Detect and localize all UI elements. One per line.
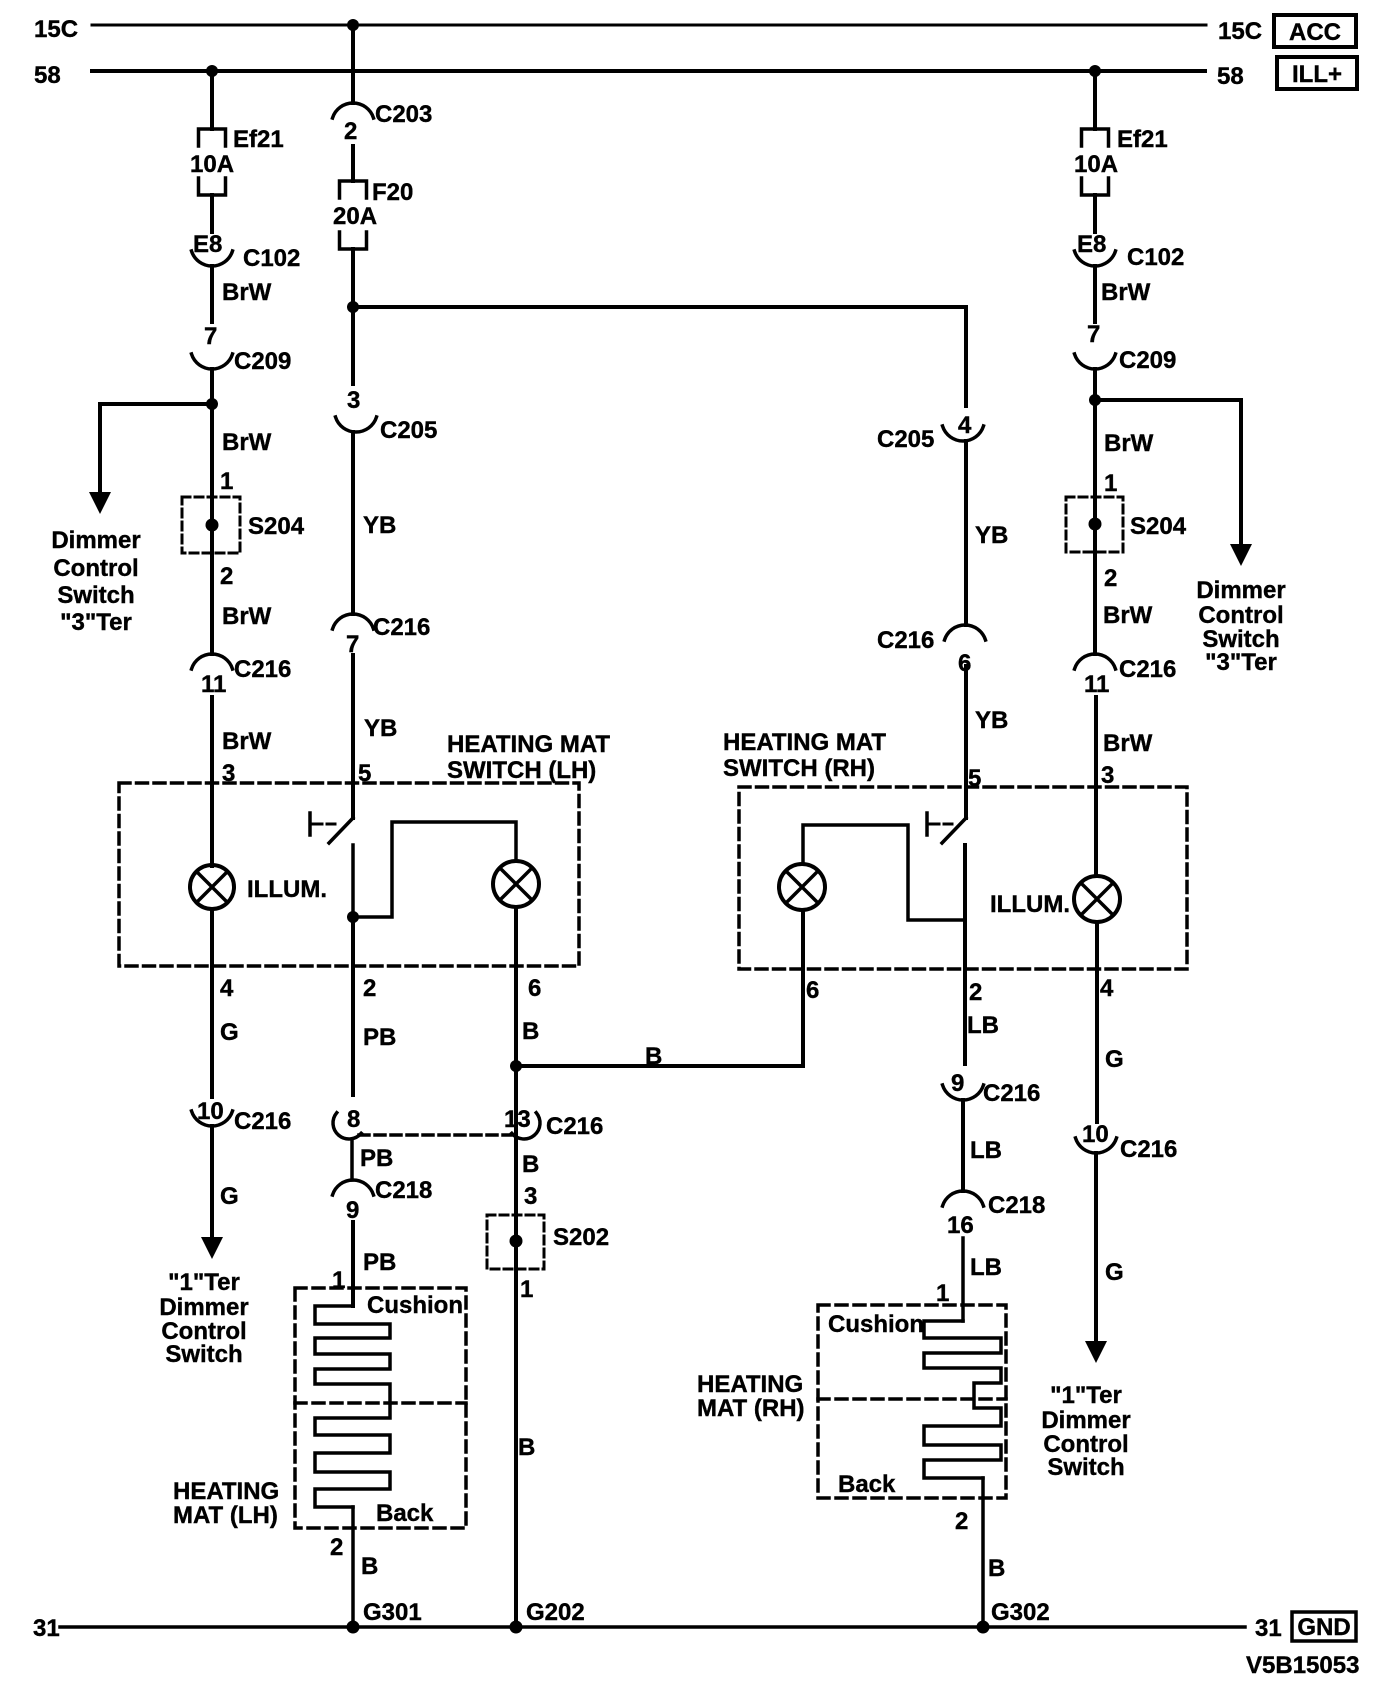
wire C216-6 to switch contact (RH) [964, 666, 968, 818]
svg-text:7: 7 [346, 631, 359, 658]
svg-text:11: 11 [201, 671, 226, 698]
svg-text:Dimmer: Dimmer [159, 1294, 248, 1321]
switch T-bar symbol (LH) [308, 813, 312, 835]
svg-text:31: 31 [33, 1615, 60, 1642]
heating mat LH cushion/back divider [295, 1401, 466, 1405]
svg-text:10: 10 [197, 1098, 224, 1125]
arrowhead right dimmer [1230, 544, 1252, 566]
ground dot G202 [510, 1621, 523, 1634]
svg-text:4: 4 [1100, 975, 1114, 1002]
svg-text:Control: Control [1198, 602, 1283, 629]
svg-text:2: 2 [220, 563, 233, 590]
svg-text:BrW: BrW [1104, 430, 1154, 457]
svg-text:2: 2 [344, 118, 357, 145]
svg-text:G: G [220, 1019, 239, 1046]
wire S204 through to C216 (right) [1093, 497, 1097, 552]
svg-text:LB: LB [967, 1012, 999, 1039]
svg-text:C203: C203 [375, 101, 432, 128]
svg-text:15C: 15C [34, 16, 78, 43]
node branch to dimmer arrow (right) [1089, 394, 1101, 406]
wire lamp branch riser (LH) [353, 822, 516, 917]
tag box ACC [1274, 15, 1356, 47]
svg-text:16: 16 [947, 1212, 974, 1239]
svg-text:BrW: BrW [1101, 279, 1151, 306]
svg-text:11: 11 [1084, 671, 1109, 698]
svg-text:C205: C205 [380, 417, 437, 444]
svg-text:Switch: Switch [1047, 1454, 1124, 1481]
svg-text:B: B [522, 1151, 539, 1178]
switch box (LH) dashed [119, 783, 579, 966]
svg-text:YB: YB [364, 715, 397, 742]
svg-text:S204: S204 [248, 513, 305, 540]
svg-text:HEATING: HEATING [173, 1478, 279, 1505]
svg-text:PB: PB [363, 1249, 396, 1276]
wire C205-3 to C216-7 [351, 432, 355, 614]
lamp indicator (RH switch) [779, 864, 825, 910]
svg-text:Cushion: Cushion [828, 1311, 924, 1338]
connector 16 C218 (col5) [943, 1191, 984, 1206]
lamp ILLUM (RH) [1074, 876, 1120, 922]
svg-text:Cushion: Cushion [367, 1292, 463, 1319]
splice S202 dashed box [487, 1215, 544, 1269]
wire arrow to 1Ter dimmer control switch (left) [210, 1126, 214, 1240]
svg-text:13: 13 [504, 1106, 531, 1133]
svg-text:C216: C216 [1119, 656, 1176, 683]
wire C203 to fuse F20 [351, 146, 355, 181]
connector 11 C216 (left) [192, 654, 233, 669]
svg-text:BrW: BrW [222, 429, 272, 456]
node junction 15C/col2 [347, 19, 359, 31]
heating mat LH element zigzag [315, 1306, 390, 1507]
svg-text:LB: LB [970, 1254, 1002, 1281]
dashed link C216 pins 8-13 [359, 1133, 511, 1137]
svg-text:1: 1 [220, 468, 233, 495]
svg-text:B: B [522, 1018, 539, 1045]
tag box GND [1292, 1612, 1356, 1641]
wire C205-4 to C216-6 [964, 441, 968, 625]
wire C216-11 into switch box to lamp (right) [1094, 697, 1098, 876]
wire col5 from feed down to C205-4 [964, 307, 968, 406]
svg-text:PB: PB [360, 1145, 393, 1172]
connector 8 C216 (col2) tilted [326, 1113, 361, 1146]
svg-text:4: 4 [958, 412, 972, 439]
svg-text:ACC: ACC [1289, 19, 1341, 46]
switch box (RH) dashed [739, 787, 1187, 969]
svg-text:Control: Control [53, 555, 138, 582]
splice S204 (right) dot [1089, 518, 1102, 531]
wire lamp branch (RH) [803, 825, 965, 920]
connector 9 C218 (col2) [333, 1180, 374, 1195]
svg-text:8: 8 [347, 1106, 360, 1133]
svg-text:C209: C209 [234, 348, 291, 375]
svg-text:2: 2 [1104, 565, 1117, 592]
wire mat LH pin2 to G301 [351, 1507, 355, 1627]
svg-text:ILL+: ILL+ [1292, 61, 1342, 88]
svg-text:BrW: BrW [222, 728, 272, 755]
svg-text:C216: C216 [373, 614, 430, 641]
svg-text:Switch: Switch [57, 582, 134, 609]
svg-text:58: 58 [34, 62, 61, 89]
svg-text:10: 10 [1082, 1121, 1109, 1148]
svg-text:10A: 10A [1074, 151, 1118, 178]
wire B horizontal to RH lamp [516, 1064, 803, 1068]
bus 15C [92, 24, 1206, 27]
svg-text:Ef21: Ef21 [1117, 126, 1168, 153]
svg-text:BrW: BrW [222, 279, 272, 306]
svg-text:Ef21: Ef21 [233, 126, 284, 153]
svg-text:31: 31 [1255, 1615, 1282, 1642]
svg-text:C205: C205 [877, 426, 934, 453]
svg-text:PB: PB [363, 1024, 396, 1051]
svg-text:Back: Back [376, 1500, 434, 1527]
wire fuse to connector E8 (right) [1093, 195, 1097, 232]
svg-text:BrW: BrW [222, 603, 272, 630]
wire junction down to C205-3 [351, 307, 355, 384]
svg-text:7: 7 [204, 323, 217, 350]
svg-text:E8: E8 [1077, 231, 1106, 258]
svg-text:B: B [518, 1434, 535, 1461]
arrowhead left dimmer [89, 492, 111, 514]
svg-text:Dimmer: Dimmer [1041, 1407, 1130, 1434]
svg-text:MAT (RH): MAT (RH) [697, 1395, 805, 1422]
heating mat RH cushion/back divider [818, 1397, 1006, 1401]
wire C209 to S204 [210, 369, 214, 497]
wire E8 to C209 (right) [1093, 266, 1097, 322]
bus 58 [92, 69, 1205, 73]
connector 7 C209 (left) [192, 354, 233, 369]
connector 6 C216 (col5) [945, 625, 986, 640]
svg-text:YB: YB [975, 522, 1008, 549]
node lamp branch junction (LH) [347, 911, 359, 923]
connector 4 C205 (col5) [943, 426, 984, 441]
svg-text:C218: C218 [988, 1192, 1045, 1219]
svg-text:C216: C216 [877, 627, 934, 654]
connector E8/C102 (right) [1075, 251, 1116, 266]
splice S202 dot [510, 1235, 523, 1248]
svg-text:ILLUM.: ILLUM. [990, 891, 1070, 918]
svg-text:58: 58 [1217, 63, 1244, 90]
svg-text:5: 5 [358, 760, 371, 787]
svg-text:C102: C102 [1127, 244, 1184, 271]
connector 7 C209 (right) [1075, 354, 1116, 369]
wire horizontal feed to RH side [353, 305, 966, 309]
svg-text:4: 4 [220, 975, 234, 1002]
svg-text:V5B15053: V5B15053 [1246, 1652, 1359, 1679]
wire below blade to junction (LH) [351, 845, 355, 917]
svg-text:G302: G302 [991, 1599, 1050, 1626]
switch blade (RH heating mat switch) [942, 818, 966, 843]
splice S204 (left) dashed box [182, 497, 240, 553]
ground dot G301 [347, 1621, 360, 1634]
splice S204 (left) dot [206, 519, 219, 532]
svg-text:9: 9 [951, 1070, 964, 1097]
svg-text:C216: C216 [234, 656, 291, 683]
wire S202 through down to G202 [514, 1215, 518, 1269]
svg-text:YB: YB [363, 512, 396, 539]
svg-text:SWITCH (LH): SWITCH (LH) [447, 757, 596, 784]
svg-text:Dimmer: Dimmer [1196, 577, 1285, 604]
heating mat RH dashed box [818, 1305, 1006, 1498]
svg-text:5: 5 [968, 765, 981, 792]
wire C216-9 to C218-16 [961, 1100, 965, 1191]
wire fuse to connector E8 [210, 195, 214, 232]
wire 13 down to S202 [514, 1066, 518, 1215]
wire C216-11 into switch box to lamp [210, 697, 214, 866]
svg-text:10A: 10A [190, 151, 234, 178]
svg-text:2: 2 [955, 1508, 968, 1535]
svg-text:2: 2 [969, 979, 982, 1006]
connector 3 C205 (col2) [336, 417, 377, 432]
svg-text:6: 6 [528, 975, 541, 1002]
svg-text:15C: 15C [1218, 18, 1262, 45]
node junction 58/col6 [1089, 65, 1101, 77]
svg-text:MAT (LH): MAT (LH) [173, 1502, 278, 1529]
svg-text:G202: G202 [526, 1599, 585, 1626]
connector 7 C216 (col2) [333, 614, 374, 629]
wire arrow to 1Ter dimmer control switch (right) [1094, 1153, 1098, 1344]
wire col1 58 to fuse Ef21 [210, 71, 214, 129]
svg-text:ILLUM.: ILLUM. [247, 876, 327, 903]
wire branch to left arrow [100, 404, 212, 498]
svg-text:BrW: BrW [1103, 730, 1153, 757]
svg-text:Switch: Switch [165, 1341, 242, 1368]
svg-text:"3"Ter: "3"Ter [60, 609, 132, 636]
heating mat RH element zigzag [924, 1321, 1001, 1478]
fuse Ef21 (right) 10A [1082, 129, 1109, 146]
wire col2 from 15C down to C203 [351, 25, 355, 103]
wire E8 to C209 [210, 266, 214, 322]
svg-text:3: 3 [1101, 762, 1114, 789]
svg-text:3: 3 [222, 760, 235, 787]
connector 13 C216 (col3) tilted [512, 1113, 547, 1146]
wire 9 to heating mat LH pin1 [351, 1222, 355, 1306]
svg-text:Back: Back [838, 1471, 896, 1498]
connector 9 C216 (col5) [943, 1085, 984, 1100]
node junction 58/col1 [206, 65, 218, 77]
svg-text:6: 6 [958, 650, 971, 677]
wire 16 to heating mat RH pin1 [961, 1238, 965, 1321]
fuse Ef21 (left) 10A [199, 129, 226, 146]
wire col2 pin2 down to C216-8 [351, 917, 355, 1095]
svg-text:C218: C218 [375, 1177, 432, 1204]
svg-text:6: 6 [806, 977, 819, 1004]
switch blade (LH heating mat switch) [329, 818, 353, 843]
svg-text:E8: E8 [193, 231, 222, 258]
svg-text:C216: C216 [234, 1108, 291, 1135]
svg-text:1: 1 [1104, 470, 1117, 497]
lamp ILLUM (LH) [190, 865, 234, 909]
svg-text:B: B [988, 1555, 1005, 1582]
wire S204 through to C216 [210, 497, 214, 553]
svg-text:G: G [1105, 1259, 1124, 1286]
fuse F20 20A [340, 181, 367, 198]
svg-text:"1"Ter: "1"Ter [1050, 1382, 1122, 1409]
svg-text:BrW: BrW [1103, 602, 1153, 629]
wire F20 to junction [351, 249, 355, 307]
svg-text:3: 3 [347, 387, 360, 414]
svg-text:20A: 20A [333, 203, 377, 230]
lamp indicator (LH switch) [493, 861, 539, 907]
connector 2 C203 (col2 top) [333, 103, 374, 118]
wire col6 58 to fuse Ef21 (right) [1093, 71, 1097, 129]
wire ILLUM lamp down to C216-10 (right) [1095, 922, 1099, 1122]
svg-text:SWITCH (RH): SWITCH (RH) [723, 755, 875, 782]
svg-text:1: 1 [332, 1267, 345, 1294]
svg-text:"1"Ter: "1"Ter [168, 1269, 240, 1296]
svg-text:G: G [220, 1183, 239, 1210]
wire mat RH pin2 to G302 [981, 1478, 985, 1627]
svg-text:YB: YB [975, 707, 1008, 734]
heating mat LH dashed box [295, 1288, 466, 1528]
wire lamp to B junction (col3) [514, 907, 518, 1066]
wire C209 to S204 (right) [1093, 369, 1097, 497]
svg-text:1: 1 [520, 1276, 533, 1303]
wire branch to right arrow [1095, 400, 1241, 547]
svg-text:C102: C102 [243, 245, 300, 272]
svg-text:F20: F20 [372, 179, 413, 206]
svg-text:C209: C209 [1119, 347, 1176, 374]
svg-text:G: G [1105, 1046, 1124, 1073]
svg-text:2: 2 [363, 975, 376, 1002]
node B junction (col3) [510, 1060, 522, 1072]
svg-text:HEATING MAT: HEATING MAT [447, 731, 610, 758]
svg-text:C216: C216 [546, 1113, 603, 1140]
svg-text:7: 7 [1087, 321, 1100, 348]
svg-text:C216: C216 [1120, 1136, 1177, 1163]
connector E8/C102 (left) [192, 251, 233, 266]
svg-text:Dimmer: Dimmer [51, 527, 140, 554]
wire 8 to C218-9 [350, 1139, 354, 1180]
wire below blade down (RH) [963, 845, 967, 1064]
connector 10 C216 (right) [1076, 1138, 1117, 1153]
wire lamp to C216-10 (left) [210, 909, 214, 1097]
svg-text:"3"Ter: "3"Ter [1205, 649, 1277, 676]
svg-text:1: 1 [936, 1280, 949, 1307]
tag box ILL+ [1277, 57, 1357, 89]
ground dot G302 [977, 1621, 990, 1634]
wire RH lamp pin6 down to B wire [801, 910, 805, 1066]
wire C216-7 to switch contact [351, 655, 355, 818]
arrowhead left bottom [201, 1237, 223, 1259]
arrowhead right bottom [1085, 1341, 1107, 1363]
svg-text:3: 3 [524, 1183, 537, 1210]
connector 10 C216 (left) [192, 1111, 233, 1126]
svg-text:B: B [645, 1043, 662, 1070]
splice S204 (right) dashed box [1066, 497, 1123, 552]
svg-text:S202: S202 [553, 1224, 609, 1251]
svg-text:2: 2 [330, 1534, 343, 1561]
svg-text:GND: GND [1297, 1614, 1350, 1641]
node junction col2/horizontal feed [347, 301, 359, 313]
svg-text:LB: LB [970, 1137, 1002, 1164]
switch T-bar symbol (RH) [925, 813, 929, 835]
svg-text:G301: G301 [363, 1599, 422, 1626]
bus 31 GND [60, 1625, 1245, 1629]
svg-text:HEATING MAT: HEATING MAT [723, 729, 886, 756]
svg-text:9: 9 [346, 1197, 359, 1224]
node branch to dimmer arrow (left) [206, 398, 218, 410]
svg-text:B: B [361, 1553, 378, 1580]
svg-text:HEATING: HEATING [697, 1371, 803, 1398]
connector 11 C216 (right) [1075, 654, 1116, 669]
svg-text:S204: S204 [1130, 513, 1187, 540]
svg-text:C216: C216 [983, 1080, 1040, 1107]
